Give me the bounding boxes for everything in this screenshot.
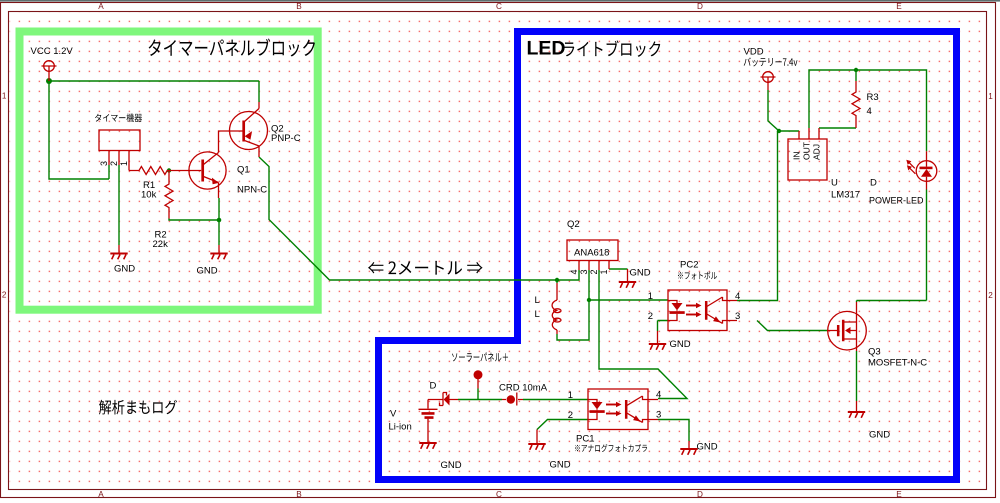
svg-text:LED: LED [527,38,566,60]
svg-text:GND: GND [670,339,691,350]
svg-text:2: 2 [568,410,573,421]
svg-text:VDD: VDD [744,47,764,58]
svg-text:D: D [697,490,703,499]
svg-text:IN: IN [792,152,802,161]
svg-text:Q1: Q1 [237,165,250,176]
svg-text:Li-ion: Li-ion [389,422,412,433]
svg-text:1: 1 [648,291,653,302]
svg-text:1: 1 [119,161,129,166]
svg-text:3: 3 [99,161,109,166]
svg-text:2: 2 [2,291,7,300]
svg-text:MOSFET-N-C: MOSFET-N-C [868,358,927,369]
svg-text:PC1: PC1 [576,434,594,445]
svg-text:CRD 10mA: CRD 10mA [499,383,548,394]
svg-text:B: B [296,490,302,499]
svg-text:22k: 22k [153,239,169,250]
svg-text:A: A [98,490,104,499]
svg-text:2: 2 [589,269,599,274]
svg-text:PNP-C: PNP-C [271,133,301,144]
svg-text:C: C [496,490,502,499]
svg-text:4: 4 [867,106,872,117]
svg-text:10k: 10k [141,190,157,201]
svg-text:L: L [535,309,540,320]
svg-text:1: 1 [988,92,993,101]
svg-text:GND: GND [441,460,462,471]
svg-text:OUT: OUT [802,142,812,160]
svg-text:1: 1 [2,92,7,101]
svg-text:Q2: Q2 [567,219,580,230]
svg-text:ADJ: ADJ [812,144,822,160]
svg-text:PC2: PC2 [680,260,698,271]
svg-text:D: D [697,2,703,11]
svg-text:2: 2 [648,311,653,322]
svg-text:E: E [896,490,902,499]
svg-text:A: A [98,2,104,11]
svg-text:GND: GND [630,268,651,279]
svg-text:1: 1 [568,390,573,401]
svg-text:3: 3 [579,269,589,274]
svg-text:R3: R3 [867,92,879,103]
svg-text:ANA618: ANA618 [574,248,609,259]
svg-text:POWER-LED: POWER-LED [869,196,924,206]
svg-text:1: 1 [599,269,609,274]
svg-text:4: 4 [735,291,740,302]
svg-text:3: 3 [656,410,661,421]
svg-text:U: U [831,178,838,189]
svg-text:C: C [496,2,502,11]
svg-text:V: V [390,409,397,420]
svg-text:LM317: LM317 [831,190,860,201]
svg-text:NPN-C: NPN-C [237,185,267,196]
svg-text:VCC 1.2V: VCC 1.2V [31,46,74,57]
svg-text:D: D [870,178,877,189]
svg-text:GND: GND [550,460,571,471]
svg-text:Q3: Q3 [868,347,881,358]
svg-text:4: 4 [656,390,661,401]
svg-text:D: D [430,381,437,392]
svg-text:GND: GND [197,266,218,277]
svg-text:4: 4 [569,269,579,274]
svg-text:GND: GND [697,442,718,453]
svg-text:GND: GND [114,264,135,275]
svg-text:2: 2 [988,291,993,300]
svg-text:2: 2 [109,161,119,166]
svg-text:3: 3 [735,311,740,322]
svg-text:E: E [896,2,902,11]
svg-text:GND: GND [869,430,890,441]
svg-text:L: L [535,295,540,306]
svg-text:B: B [296,2,302,11]
